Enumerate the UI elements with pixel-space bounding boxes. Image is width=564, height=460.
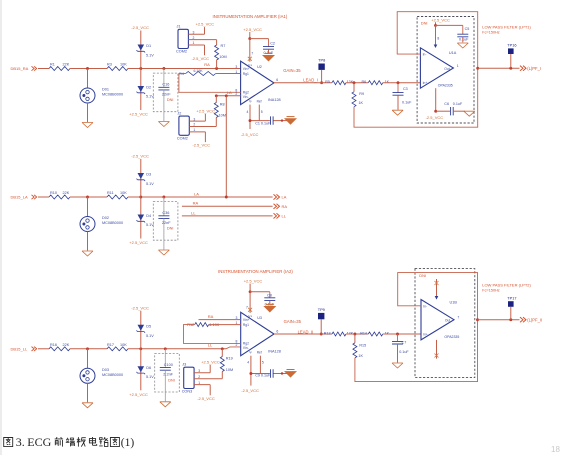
svg-text:0.1uF: 0.1uF (459, 37, 469, 41)
svg-text:U1A: U1A (449, 51, 457, 55)
svg-text:LA: LA (282, 195, 287, 200)
svg-text:5.1V: 5.1V (146, 375, 154, 379)
svg-text:D3: D3 (146, 173, 151, 177)
svg-text:DNI: DNI (167, 98, 174, 102)
svg-text:Ref: Ref (257, 99, 262, 103)
svg-text:+2.5_VCC: +2.5_VCC (244, 278, 263, 283)
svg-text:Out: Out (444, 67, 449, 71)
svg-text:R5: R5 (325, 80, 330, 84)
svg-text:C36: C36 (162, 211, 169, 215)
svg-text:5.1V: 5.1V (146, 182, 154, 186)
svg-text:D4: D4 (146, 214, 151, 218)
svg-text:R9: R9 (359, 92, 364, 96)
svg-text:D5: D5 (146, 324, 151, 328)
svg-text:Rg1: Rg1 (243, 72, 249, 76)
svg-text:1K: 1K (385, 80, 390, 84)
svg-text:C9 0.1uF: C9 0.1uF (255, 374, 271, 378)
svg-text:INSTRUMENTATION AMPLIFIER (IA2: INSTRUMENTATION AMPLIFIER (IA2) (218, 269, 293, 274)
svg-text:RA: RA (204, 62, 210, 67)
svg-text:TP16: TP16 (507, 43, 516, 48)
svg-text:Fc=150Hz: Fc=150Hz (482, 30, 500, 34)
svg-text:DB15_LL: DB15_LL (11, 346, 28, 351)
svg-text:-2.5_VCC: -2.5_VCC (241, 388, 259, 393)
svg-text:2: 2 (193, 36, 195, 40)
svg-text:3: 3 (235, 65, 237, 69)
svg-text:C1 0.1uF: C1 0.1uF (255, 122, 271, 126)
svg-text:1: 1 (193, 41, 195, 45)
svg-text:D02: D02 (102, 216, 109, 220)
svg-text:10K: 10K (120, 63, 127, 67)
svg-text:C16: C16 (162, 83, 169, 87)
svg-text:MC08B0000: MC08B0000 (102, 93, 123, 97)
svg-text:+2.5_VCC: +2.5_VCC (129, 112, 148, 117)
svg-text:1K: 1K (385, 331, 390, 335)
svg-text:+2.5_VCC: +2.5_VCC (431, 17, 450, 22)
svg-text:J1: J1 (177, 25, 181, 29)
svg-text:22K: 22K (63, 191, 70, 195)
svg-text:R4: R4 (179, 72, 184, 76)
svg-text:6.19K: 6.19K (194, 69, 204, 73)
svg-text:R19: R19 (226, 357, 233, 361)
svg-text:DB15_RA: DB15_RA (11, 66, 29, 71)
svg-text:R13: R13 (324, 331, 331, 335)
svg-text:18: 18 (551, 445, 560, 454)
svg-text:-2.5_VCC: -2.5_VCC (192, 143, 210, 148)
svg-text:4: 4 (247, 360, 249, 364)
svg-text:+2.5_VCC: +2.5_VCC (243, 27, 262, 32)
svg-text:4: 4 (247, 110, 249, 114)
svg-text:22K: 22K (63, 343, 70, 347)
svg-text:1K: 1K (358, 354, 363, 358)
svg-text:7: 7 (457, 316, 459, 320)
svg-text:DB15_LA: DB15_LA (11, 195, 28, 200)
svg-text:7: 7 (246, 305, 248, 309)
svg-text:Ref: Ref (257, 351, 262, 355)
svg-text:U2: U2 (257, 65, 262, 69)
svg-text:1: 1 (457, 64, 459, 68)
svg-text:R17: R17 (107, 343, 114, 347)
svg-text:TP8: TP8 (318, 58, 325, 63)
svg-text:C7: C7 (402, 341, 407, 345)
svg-text:MC08B0000: MC08B0000 (102, 221, 123, 225)
svg-text:-2.5_VCC: -2.5_VCC (192, 56, 210, 61)
svg-text:LEAD_I: LEAD_I (303, 77, 317, 82)
svg-text:C5: C5 (465, 27, 470, 31)
svg-text:LL: LL (191, 210, 196, 215)
svg-text:C2: C2 (270, 41, 275, 45)
svg-text:R1: R1 (50, 63, 55, 67)
svg-text:10M: 10M (219, 55, 226, 59)
svg-text:OPA2335: OPA2335 (444, 335, 459, 339)
svg-text:R11: R11 (107, 191, 114, 195)
svg-text:V+: V+ (248, 315, 252, 319)
svg-text:Fc=150Hz: Fc=150Hz (482, 288, 500, 292)
svg-text:C100: C100 (164, 363, 173, 367)
svg-text:COM2: COM2 (177, 136, 188, 140)
svg-text:3: 3 (198, 369, 200, 373)
svg-text:(L)PF_I: (L)PF_I (527, 66, 541, 71)
svg-text:10K: 10K (120, 343, 127, 347)
svg-text:5.1V: 5.1V (146, 334, 154, 338)
svg-text:+2.5_VCC: +2.5_VCC (129, 240, 148, 245)
svg-text:10M: 10M (219, 113, 226, 117)
svg-text:DNI: DNI (419, 273, 426, 278)
svg-text:1: 1 (193, 128, 195, 132)
svg-text:3.: 3. (16, 435, 25, 449)
svg-text:(1): (1) (121, 437, 135, 449)
svg-text:R6: R6 (362, 80, 367, 84)
svg-text:V-: V- (249, 99, 252, 103)
svg-text:-2.5_VCC: -2.5_VCC (197, 396, 215, 401)
svg-text:GAIN=35: GAIN=35 (283, 68, 301, 73)
svg-text:Rg2: Rg2 (243, 342, 249, 346)
svg-text:1K: 1K (359, 101, 364, 105)
svg-text:R16: R16 (50, 343, 57, 347)
svg-text:D1: D1 (146, 44, 151, 48)
svg-text:D2: D2 (146, 86, 151, 90)
svg-text:Rg2: Rg2 (243, 90, 249, 94)
svg-text:3: 3 (193, 117, 195, 121)
svg-text:+2.5_VCC: +2.5_VCC (196, 22, 215, 27)
svg-text:CON3: CON3 (182, 390, 193, 394)
svg-text:RA: RA (193, 201, 199, 206)
svg-text:D6: D6 (146, 366, 151, 370)
svg-text:R3: R3 (107, 63, 112, 67)
svg-text:Vin-: Vin- (243, 346, 249, 350)
svg-text:OPA2335: OPA2335 (438, 84, 453, 88)
svg-text:-2.5_VCC: -2.5_VCC (131, 305, 149, 310)
svg-text:RA: RA (282, 204, 288, 209)
svg-text:7: 7 (251, 52, 253, 56)
svg-text:-2.5_VCC: -2.5_VCC (131, 25, 149, 30)
svg-text:22K: 22K (63, 63, 70, 67)
svg-text:13K: 13K (347, 331, 354, 335)
svg-text:LOW PASS FILTER (LPT2): LOW PASS FILTER (LPT2) (482, 283, 531, 288)
svg-text:R10: R10 (50, 191, 57, 195)
svg-text:Vin-: Vin- (243, 95, 249, 99)
svg-text:2: 2 (193, 123, 195, 127)
svg-text:DNI: DNI (421, 21, 428, 26)
svg-text:C8: C8 (267, 293, 272, 297)
svg-text:+2.5_VCC: +2.5_VCC (201, 359, 220, 364)
svg-text:In-: In- (423, 53, 427, 57)
svg-text:J3: J3 (182, 362, 186, 366)
svg-text:D03: D03 (102, 368, 109, 372)
svg-text:U1B: U1B (450, 301, 458, 305)
svg-text:R7: R7 (221, 44, 226, 48)
svg-text:C3: C3 (403, 87, 408, 91)
svg-text:J2: J2 (177, 111, 181, 115)
svg-text:INSTRUMENTATION AMPLIFIER (IA1: INSTRUMENTATION AMPLIFIER (IA1) (213, 14, 288, 19)
svg-text:D01: D01 (102, 88, 109, 92)
svg-text:0.1uF: 0.1uF (399, 350, 409, 354)
svg-text:5.1V: 5.1V (146, 54, 154, 58)
svg-text:13K: 13K (347, 80, 354, 84)
svg-text:V-: V- (249, 351, 252, 355)
svg-text:0.1uF: 0.1uF (402, 101, 412, 105)
svg-text:TP9: TP9 (318, 307, 325, 312)
svg-text:COM2: COM2 (176, 50, 187, 54)
svg-text:-2.5_VCC: -2.5_VCC (241, 132, 259, 137)
svg-text:R14: R14 (360, 331, 367, 335)
svg-text:DNI: DNI (168, 378, 175, 382)
svg-text:+2.5_VCC: +2.5_VCC (129, 392, 148, 397)
svg-text:LOW PASS FILTER (LPT1): LOW PASS FILTER (LPT1) (482, 25, 531, 30)
svg-text:DNI: DNI (167, 227, 174, 231)
svg-text:0.1uF: 0.1uF (453, 102, 463, 106)
svg-text:In+: In+ (423, 333, 428, 337)
svg-text:C6: C6 (444, 102, 449, 106)
svg-text:INA128: INA128 (268, 350, 281, 354)
svg-text:U3: U3 (257, 316, 262, 320)
svg-text:1: 1 (198, 381, 200, 385)
svg-text:2: 2 (198, 375, 200, 379)
svg-text:V+: V+ (248, 63, 252, 67)
svg-text:LA: LA (227, 90, 232, 95)
svg-text:ECG: ECG (27, 435, 51, 449)
svg-text:In-: In- (423, 304, 427, 308)
svg-text:5: 5 (262, 360, 264, 364)
svg-text:GAIN=35: GAIN=35 (284, 319, 302, 324)
svg-text:RA: RA (208, 314, 214, 319)
svg-text:Out: Out (445, 319, 450, 323)
svg-text:10M: 10M (226, 368, 233, 372)
svg-text:+2.5_VCC: +2.5_VCC (196, 108, 215, 113)
svg-text:-2.5_VCC: -2.5_VCC (426, 115, 444, 120)
svg-text:-2.5_VCC: -2.5_VCC (131, 154, 149, 159)
svg-text:(L)PF_II: (L)PF_II (527, 318, 542, 323)
svg-text:5: 5 (261, 110, 263, 114)
svg-text:22nF: 22nF (162, 92, 171, 96)
svg-text:MC08B0000: MC08B0000 (102, 373, 123, 377)
svg-text:R15: R15 (359, 344, 366, 348)
svg-text:6: 6 (276, 330, 278, 334)
svg-text:10K: 10K (120, 191, 127, 195)
svg-text:2.2nF: 2.2nF (163, 373, 173, 377)
svg-text:In+: In+ (423, 81, 428, 85)
svg-text:8: 8 (437, 36, 439, 40)
svg-text:Vin+: Vin+ (243, 318, 250, 322)
svg-text:R8: R8 (220, 102, 225, 106)
svg-text:TP17: TP17 (507, 295, 516, 300)
svg-text:22nF: 22nF (162, 221, 171, 225)
svg-text:6: 6 (276, 78, 278, 82)
svg-text:3: 3 (193, 30, 195, 34)
svg-text:Rg1: Rg1 (243, 323, 249, 327)
svg-text:INA128: INA128 (268, 98, 281, 102)
svg-text:LA: LA (194, 191, 199, 196)
svg-text:LL: LL (282, 214, 287, 219)
